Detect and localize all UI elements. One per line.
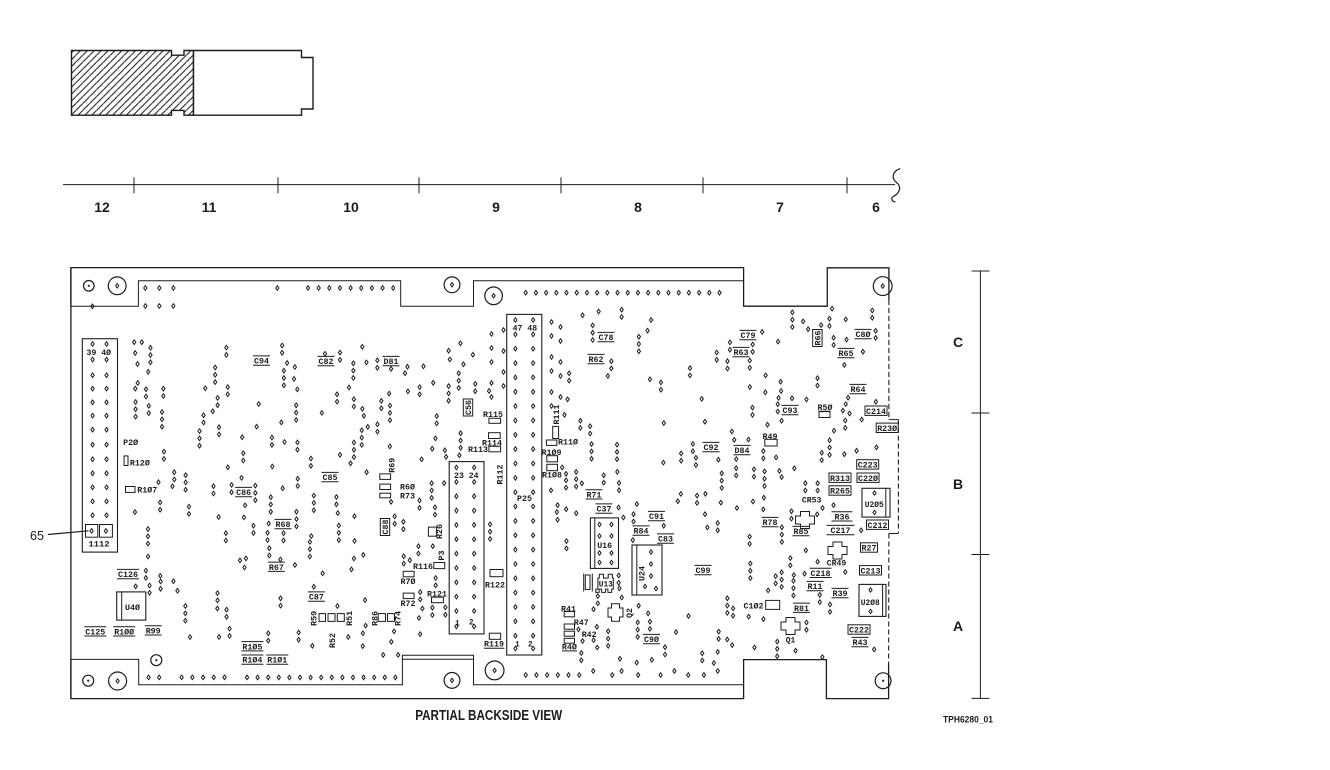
diode D84 (734, 445, 751, 456)
resistor R49 (763, 432, 778, 446)
svg-text:R27: R27 (862, 544, 877, 554)
connector P25 outline (507, 314, 542, 655)
svg-text:C37: C37 (597, 505, 612, 515)
callout 65 leader (48, 531, 89, 535)
capacitor C92 (703, 442, 720, 453)
capacitor C80 (855, 329, 872, 340)
resistor R27 (861, 543, 878, 554)
svg-text:U2Ø8: U2Ø8 (861, 598, 880, 608)
svg-text:2: 2 (528, 640, 533, 650)
capacitor C126 (117, 569, 139, 580)
svg-text:CR53: CR53 (802, 495, 822, 505)
svg-text:C85: C85 (323, 473, 338, 483)
svg-text:R62: R62 (589, 355, 604, 365)
svg-text:C126: C126 (118, 570, 138, 580)
resistor R120 (124, 456, 150, 469)
svg-text:2: 2 (469, 618, 474, 628)
svg-text:R86: R86 (370, 611, 380, 626)
mounting hole bottom-mid2 (485, 661, 504, 680)
resistor R72 (401, 593, 416, 609)
resistor pack R8 beside U13 (584, 574, 593, 592)
svg-text:39 4Ø: 39 4Ø (87, 348, 112, 358)
resistor R70 (401, 571, 416, 587)
svg-text:R43: R43 (853, 638, 868, 648)
svg-text:R67: R67 (269, 563, 284, 573)
resistor R26 (428, 524, 445, 539)
svg-text:P3: P3 (437, 551, 447, 561)
svg-text:C87: C87 (309, 593, 324, 603)
mounting hole top-mid (444, 277, 460, 293)
svg-text:C218: C218 (811, 569, 831, 579)
svg-text:10: 10 (343, 199, 359, 215)
svg-text:C125: C125 (85, 627, 105, 637)
capacitor C223 (857, 460, 879, 471)
resistor R99 (145, 626, 162, 637)
svg-text:R41: R41 (561, 605, 576, 615)
svg-text:R11: R11 (808, 582, 823, 592)
svg-text:R113: R113 (468, 445, 488, 455)
resistor R65 (838, 348, 855, 359)
resistor R36 (832, 512, 853, 523)
resistor R39 (832, 588, 849, 599)
capacitor C94 (253, 356, 270, 367)
resistor R60 (380, 483, 415, 493)
resistor R73 (380, 492, 415, 502)
svg-text:R39: R39 (833, 589, 848, 599)
svg-text:R7Ø: R7Ø (401, 577, 416, 587)
transistor Q1 (781, 618, 800, 646)
resistor R78 (762, 517, 779, 528)
connector P20 outline (82, 339, 117, 552)
capacitor C222 (848, 625, 870, 636)
board inner bottom line (71, 659, 744, 684)
resistor R42 (564, 630, 597, 640)
svg-text:R12Ø: R12Ø (130, 459, 150, 469)
svg-text:C9Ø: C9Ø (644, 635, 659, 645)
svg-text:U4Ø: U4Ø (125, 603, 140, 613)
capacitor C99 (695, 565, 712, 576)
bottom center notch second line (402, 655, 473, 659)
svg-text:R1Ø4: R1Ø4 (242, 656, 262, 666)
resistor R69 (380, 458, 398, 480)
svg-text:R313: R313 (830, 474, 850, 484)
IC U13 (596, 574, 614, 592)
svg-text:47 48: 47 48 (513, 324, 538, 334)
capacitor C87 (308, 592, 325, 603)
svg-text:C86: C86 (236, 488, 251, 498)
resistor R107 (126, 485, 158, 495)
resistor R313 (829, 473, 851, 484)
svg-text:C99: C99 (696, 566, 711, 576)
svg-text:C94: C94 (254, 357, 269, 367)
capacitor C37 (596, 504, 613, 515)
svg-text:R63: R63 (734, 348, 749, 358)
svg-text:C22Ø: C22Ø (858, 474, 878, 484)
svg-text:R59: R59 (310, 611, 320, 626)
IC U40 (117, 592, 146, 620)
svg-text:R23Ø: R23Ø (877, 424, 897, 434)
resistor R43 (852, 637, 869, 648)
board right edge dashed (889, 300, 899, 665)
svg-text:U13: U13 (599, 579, 613, 589)
board outer outline (71, 268, 889, 699)
capacitor C102 (744, 600, 780, 611)
resistor R110 (546, 438, 578, 448)
svg-text:C223: C223 (858, 461, 878, 471)
svg-text:9: 9 (492, 199, 500, 215)
diode CR53 (796, 495, 822, 528)
svg-text:R1Ø8: R1Ø8 (542, 470, 562, 480)
svg-text:1: 1 (455, 619, 460, 629)
svg-text:R52: R52 (328, 633, 338, 648)
svg-text:R81: R81 (794, 604, 809, 614)
svg-text:R49: R49 (763, 432, 778, 442)
svg-text:1112: 1112 (89, 540, 110, 550)
capacitor C78 (598, 332, 615, 343)
resistor R64 (850, 384, 867, 395)
resistor R66 (813, 330, 824, 347)
resistor R85 (793, 526, 810, 537)
resistor R71 (586, 490, 603, 501)
svg-text:Q2: Q2 (625, 608, 635, 618)
svg-text:R71: R71 (587, 490, 602, 500)
svg-text:R51: R51 (345, 611, 355, 626)
svg-text:C1Ø2: C1Ø2 (744, 602, 764, 612)
svg-text:D84: D84 (735, 446, 750, 456)
resistor R62 (588, 354, 605, 365)
svg-text:6: 6 (872, 199, 880, 215)
resistor R122 (485, 570, 505, 591)
svg-text:C79: C79 (741, 331, 756, 341)
svg-text:R68: R68 (276, 520, 291, 530)
resistor R50 (818, 403, 833, 418)
IC U205 (862, 488, 890, 517)
svg-text:R1Ø5: R1Ø5 (242, 642, 262, 652)
mounting hole top-mid2 (485, 287, 503, 305)
capacitor C88 (380, 519, 391, 536)
svg-text:C222: C222 (849, 626, 869, 636)
board inner top line (71, 281, 744, 307)
svg-text:PARTIAL BACKSIDE VIEW: PARTIAL BACKSIDE VIEW (415, 708, 562, 724)
capacitor C214 (865, 406, 887, 417)
resistor group R59 R52 R51 (310, 611, 355, 648)
resistor R104 (241, 655, 263, 666)
svg-text:C92: C92 (704, 443, 719, 453)
resistor R109 (542, 448, 562, 462)
transistor Q2 (608, 604, 635, 621)
resistor R116 (413, 562, 445, 572)
svg-text:R1Ø9: R1Ø9 (542, 448, 562, 458)
svg-text:R99: R99 (146, 626, 161, 636)
capacitor C212 (867, 520, 889, 531)
svg-text:R66: R66 (814, 331, 824, 346)
svg-text:B: B (953, 476, 963, 492)
resistor R68 (275, 519, 292, 530)
via field (91, 286, 878, 680)
svg-text:D81: D81 (384, 357, 399, 367)
mounting hole bottom-left large (109, 672, 127, 690)
svg-text:R73: R73 (400, 492, 415, 502)
svg-text:R121: R121 (427, 590, 447, 600)
connector P25 pins (514, 318, 535, 651)
svg-text:R78: R78 (763, 518, 778, 528)
resistor R84 (633, 526, 650, 537)
svg-text:R116: R116 (413, 562, 433, 572)
capacitor C90 (643, 634, 660, 645)
svg-text:U24: U24 (638, 566, 648, 581)
svg-text:R47: R47 (574, 618, 589, 628)
IC U24 (632, 545, 662, 595)
svg-text:23 24: 23 24 (454, 471, 479, 481)
svg-text:R1Ø1: R1Ø1 (267, 656, 287, 666)
svg-text:P25: P25 (517, 494, 532, 504)
mounting hole top-left small (84, 281, 95, 292)
svg-text:C8Ø: C8Ø (856, 330, 871, 340)
resistor R121 (427, 590, 447, 603)
mounting hole top-right (873, 277, 892, 296)
svg-text:U16: U16 (597, 541, 612, 551)
svg-text:C83: C83 (658, 535, 673, 545)
diode CR49 (827, 542, 847, 569)
capacitor C82 (318, 356, 335, 367)
vertical grid scale (972, 271, 990, 698)
resistor R63 (733, 347, 750, 358)
resistor R101 (266, 655, 288, 666)
svg-text:C91: C91 (649, 512, 664, 522)
IC U16 (590, 518, 618, 569)
svg-text:R112: R112 (496, 465, 506, 485)
connector P20 pins (86, 342, 113, 538)
svg-text:R85: R85 (794, 527, 809, 537)
resistor R108 (542, 464, 562, 480)
svg-text:R64: R64 (851, 385, 866, 395)
capacitor C213 (860, 566, 882, 577)
capacitor C85 (322, 472, 339, 483)
svg-text:C93: C93 (783, 406, 798, 416)
svg-text:R1Ø7: R1Ø7 (137, 485, 157, 495)
resistor R265 (829, 486, 851, 497)
resistor R111 (552, 405, 562, 439)
capacitor C125 (84, 627, 106, 638)
capacitor C86 (235, 487, 252, 498)
svg-text:C82: C82 (319, 357, 334, 367)
diode D81 (383, 356, 400, 367)
IC U208 (859, 584, 886, 616)
capacitor C217 (827, 525, 855, 536)
svg-text:R265: R265 (830, 487, 850, 497)
mounting hole bottom-left small (83, 675, 94, 686)
svg-text:R111: R111 (552, 405, 562, 425)
svg-text:R36: R36 (835, 512, 850, 522)
cross-section side view, plain body (194, 51, 314, 116)
svg-text:12: 12 (94, 199, 110, 215)
capacitor C93 (782, 405, 799, 416)
svg-text:R115: R115 (483, 410, 503, 420)
svg-text:R11Ø: R11Ø (558, 438, 578, 448)
svg-text:C78: C78 (599, 333, 614, 343)
cross-section side view, hatched body (72, 51, 194, 116)
svg-text:R69: R69 (387, 458, 397, 473)
svg-text:C: C (953, 334, 963, 350)
svg-text:R65: R65 (839, 349, 854, 359)
capacitor C56 (463, 399, 474, 416)
svg-text:C214: C214 (866, 407, 886, 417)
svg-text:Q1: Q1 (786, 636, 796, 646)
resistor R11 (807, 581, 824, 592)
svg-text:C217: C217 (831, 526, 851, 536)
svg-text:R26: R26 (435, 524, 445, 539)
resistor R119 (484, 633, 505, 649)
svg-text:CR49: CR49 (827, 559, 847, 569)
resistor R113 (468, 445, 501, 455)
mounting hole top-left large (108, 277, 126, 295)
resistor R81 (793, 603, 810, 614)
mounting hole bottom-right (875, 673, 891, 689)
connector P3 pins (455, 465, 476, 629)
resistor R40 (562, 638, 577, 652)
mounting hole bottom-mid (444, 673, 460, 689)
svg-text:C212: C212 (868, 521, 888, 531)
resistor R47 (564, 618, 589, 629)
svg-text:P2Ø: P2Ø (123, 438, 138, 448)
horizontal grid ruler (63, 169, 900, 202)
resistor R100 (113, 627, 135, 638)
resistor group R86 R74 (370, 611, 403, 626)
svg-text:65: 65 (30, 529, 44, 543)
svg-text:R1ØØ: R1ØØ (114, 627, 134, 637)
resistor R105 (241, 642, 263, 653)
capacitor C79 (740, 330, 757, 341)
svg-text:8: 8 (634, 199, 642, 215)
resistor R67 (268, 562, 285, 573)
resistor R114 (482, 433, 502, 449)
svg-text:A: A (953, 618, 963, 634)
resistor R115 (483, 410, 503, 423)
svg-text:7: 7 (776, 199, 784, 215)
resistor R41 (561, 605, 576, 617)
capacitor C218 (810, 568, 832, 579)
resistor R230 (876, 423, 898, 434)
svg-text:C88: C88 (381, 520, 391, 535)
svg-text:C213: C213 (861, 566, 881, 576)
connector P3 outline (449, 462, 484, 634)
svg-text:11: 11 (202, 199, 217, 215)
capacitor C91 (648, 511, 665, 522)
capacitor C83 (657, 534, 674, 545)
svg-text:U2Ø5: U2Ø5 (865, 500, 884, 510)
svg-text:R74: R74 (394, 611, 404, 626)
svg-text:R72: R72 (401, 599, 416, 609)
section boundary dashed line (193, 51, 195, 116)
svg-text:TPH6280_01: TPH6280_01 (943, 715, 993, 725)
svg-text:R122: R122 (485, 581, 505, 591)
svg-text:1: 1 (515, 640, 520, 650)
svg-text:C56: C56 (464, 400, 474, 415)
svg-text:R84: R84 (634, 527, 649, 537)
capacitor C220 (857, 473, 879, 484)
mounting hole bottom-left inner (151, 655, 162, 666)
